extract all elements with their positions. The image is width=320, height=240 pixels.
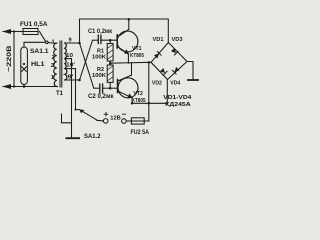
wire pin1: [48, 42, 57, 45]
junction: [13, 30, 15, 32]
pin 9' wire: [65, 79, 80, 81]
capacitor C1: [92, 39, 98, 41]
svg-text:FU2 5A: FU2 5A: [131, 130, 150, 136]
transformer T1 primary winding: [54, 43, 57, 86]
svg-text:VD3: VD3: [172, 37, 184, 43]
svg-text:C1 0,2мк: C1 0,2мк: [88, 29, 112, 35]
svg-text:KT805: KT805: [132, 98, 147, 104]
wire top rail: [80, 19, 169, 43]
resistor R1: [107, 44, 113, 62]
fuse FU2: [131, 120, 148, 122]
switch SA1.1 blade: [40, 32, 46, 41]
wire bridge right output: [187, 62, 193, 80]
svg-text:SA1.2: SA1.2: [84, 134, 101, 140]
terminal arrow bottom-left: [2, 84, 11, 89]
terminal minus: [122, 119, 127, 124]
transformer T1 secondary winding: [65, 43, 67, 80]
svg-text:VD1: VD1: [153, 37, 165, 43]
contact: [46, 41, 49, 44]
svg-text:C2 0,2мк: C2 0,2мк: [88, 94, 114, 100]
wire stub: [62, 114, 72, 123]
diode VD1: [154, 52, 161, 59]
svg-text:КД245A: КД245A: [165, 102, 191, 108]
diagonal wire 9 to C2: [80, 43, 94, 88]
wire bridge bottom drop: [166, 80, 168, 104]
svg-text:VD1-VD4: VD1-VD4: [163, 95, 192, 101]
wire middle rail: [110, 61, 151, 64]
diagonal wire 9' to C1: [80, 41, 93, 80]
pin 9 wire: [65, 42, 80, 44]
wire to fuse FU2: [126, 120, 131, 122]
ground: [67, 137, 80, 139]
junction pin9: [78, 42, 81, 45]
svg-text:SA1.1: SA1.1: [30, 49, 49, 55]
transformer core: [59, 41, 61, 87]
switch SA1.2 blade: [80, 110, 97, 120]
svg-text:R1: R1: [97, 48, 105, 54]
pin 10' wire: [65, 68, 76, 70]
svg-text:FU1 0,5A: FU1 0,5A: [20, 21, 48, 28]
svg-text:VT1: VT1: [132, 46, 142, 52]
diode VD2: [160, 68, 167, 75]
diode bridge frame: [151, 43, 187, 80]
wire R2 bottom: [109, 82, 111, 88]
svg-text:VD4: VD4: [170, 81, 181, 87]
terminal arrow top-left: [2, 29, 11, 34]
svg-text:9': 9': [68, 74, 75, 80]
junction: [23, 85, 26, 88]
svg-text:100K: 100K: [92, 54, 107, 60]
svg-text:HL1: HL1: [31, 62, 45, 68]
wire emitter rail: [132, 102, 167, 104]
svg-text:KT805: KT805: [130, 53, 145, 59]
svg-text:9: 9: [69, 37, 72, 43]
svg-text:T1: T1: [56, 91, 64, 97]
diode VD4: [173, 67, 180, 74]
junction riser-rail: [148, 102, 151, 105]
diode VD3: [171, 48, 178, 55]
wire tap 10' down: [76, 69, 80, 110]
lamp HL1: [21, 47, 28, 85]
wire battery riser: [148, 62, 150, 121]
capacitor C2: [94, 87, 100, 89]
junction R1 top: [109, 39, 112, 42]
wire lamp top: [24, 42, 45, 47]
pin 10 wire: [65, 58, 72, 60]
wire: [3, 31, 23, 33]
wire bottom rail left: [3, 86, 58, 88]
svg-text:12B: 12B: [110, 115, 121, 121]
fuse FU1: [23, 31, 38, 33]
svg-text:R2: R2: [97, 67, 104, 73]
wire center tap down to ground: [71, 59, 73, 138]
junction pin9': [78, 79, 81, 82]
wire vertical left: [13, 32, 15, 87]
svg-text:100K: 100K: [92, 73, 107, 79]
svg-text:~220B: ~220B: [6, 45, 13, 72]
wire R1-R2: [109, 61, 111, 65]
junction collector VT1: [128, 18, 131, 21]
wire riser pin9 to top rail: [79, 19, 81, 43]
svg-text:VT2: VT2: [133, 91, 143, 97]
terminal plus: [103, 119, 108, 124]
chassis terminal: [188, 79, 198, 81]
junction R1/R2: [109, 62, 112, 64]
svg-text:10': 10': [66, 62, 76, 68]
resistor R2: [107, 65, 113, 82]
transistor VT1: [117, 31, 138, 52]
junction blade pivot: [75, 109, 77, 111]
wire lamp bottom: [23, 85, 25, 87]
transistor VT2: [118, 78, 138, 98]
svg-text:VD2: VD2: [152, 81, 162, 87]
